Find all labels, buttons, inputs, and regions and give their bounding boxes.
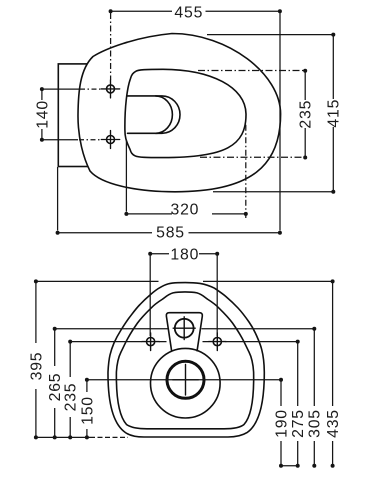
ext line below dim 180 left bbox=[149, 254, 151, 336]
outer bowl rim outline (top view egg shape) bbox=[78, 34, 281, 192]
svg-text:180: 180 bbox=[170, 246, 199, 263]
base bottom reference line bbox=[36, 436, 90, 438]
dim 305 line bbox=[312, 327, 316, 468]
dim 275 line bbox=[296, 340, 300, 468]
ext line top of inner rim (dash-dot) bbox=[198, 70, 305, 72]
svg-text:265: 265 bbox=[47, 373, 64, 402]
dim 585 line bbox=[56, 231, 282, 235]
svg-text:585: 585 bbox=[156, 225, 185, 242]
dim 320 line bbox=[124, 212, 247, 216]
ext line to upper hinge hole (dash-dot) bbox=[42, 88, 79, 90]
outlet cross bbox=[173, 365, 199, 396]
ext line left of dim 455 (dashed, through hinge holes) bbox=[110, 13, 112, 80]
ext line top of base (395/435) bbox=[36, 280, 333, 282]
svg-text:150: 150 bbox=[79, 396, 96, 425]
svg-text:140: 140 bbox=[34, 100, 51, 129]
ext line right (bowl right tip, shared 455/585) bbox=[279, 13, 281, 231]
fixing hole left (lower view) bbox=[142, 333, 159, 351]
hinge hole lower (top view) bbox=[101, 131, 119, 149]
dim 435 line bbox=[331, 279, 335, 467]
dim 180 line bbox=[148, 252, 219, 256]
ext line left for dim 320 bbox=[125, 140, 127, 212]
dim 415 line (top view) bbox=[331, 33, 335, 194]
ext line through fixing holes (235/275) bbox=[70, 341, 298, 343]
fixing hole right (lower view) bbox=[209, 333, 226, 351]
boss circle around outlet bbox=[151, 348, 221, 418]
ext line through inlet centre (265/305) bbox=[55, 328, 315, 330]
dim 190 line bbox=[279, 378, 283, 468]
dim 140 line bbox=[40, 87, 44, 142]
svg-text:435: 435 bbox=[325, 409, 342, 438]
svg-text:275: 275 bbox=[290, 409, 307, 438]
ext line right for dim 320 (dashed above) bbox=[245, 125, 247, 218]
ext line bottom of bowl bbox=[213, 191, 333, 193]
dim 265 line bbox=[53, 327, 57, 440]
svg-text:235: 235 bbox=[63, 383, 80, 412]
ext line through outlet centre (150/190) bbox=[87, 379, 281, 381]
ext line below tank left edge for dim 585 bbox=[57, 167, 59, 231]
ext line bottom of inner rim (dash-dot) bbox=[200, 156, 305, 158]
dim 235 line (lower view) bbox=[68, 340, 72, 440]
svg-text:305: 305 bbox=[307, 409, 324, 438]
inner rim / seat opening outline (top view) bbox=[125, 69, 246, 157]
outlet circle (thick) bbox=[167, 361, 204, 398]
base bottom reference line dashed part bbox=[90, 436, 128, 438]
dim 150 line bbox=[85, 378, 89, 440]
dim 455 line bbox=[109, 9, 282, 13]
bottom connector 190-275 bbox=[281, 465, 298, 467]
outer base outline (lower view rounded triangle) bbox=[108, 283, 264, 437]
cistern/tank rectangle (top view) bbox=[58, 64, 92, 167]
dim 395 line bbox=[34, 279, 38, 439]
trapway hump outline (horseshoe, top view) bbox=[128, 96, 181, 133]
svg-text:395: 395 bbox=[28, 352, 45, 381]
svg-text:455: 455 bbox=[174, 5, 203, 22]
inlet cross bbox=[173, 317, 195, 340]
svg-text:415: 415 bbox=[326, 99, 343, 128]
inlet circle bbox=[175, 319, 194, 338]
dim 235 line (top view) bbox=[303, 69, 307, 160]
svg-text:190: 190 bbox=[273, 409, 290, 438]
svg-text:320: 320 bbox=[171, 202, 200, 219]
ext line top of bowl bbox=[207, 34, 333, 36]
svg-text:235: 235 bbox=[298, 100, 315, 129]
ext line to lower hinge hole (dash-dot) bbox=[42, 139, 78, 141]
flask / inlet housing outline bbox=[166, 313, 202, 351]
ext line below dim 180 right bbox=[216, 254, 218, 336]
hinge hole upper (top view) bbox=[101, 80, 119, 98]
inner base outline (lower view) bbox=[116, 292, 253, 429]
